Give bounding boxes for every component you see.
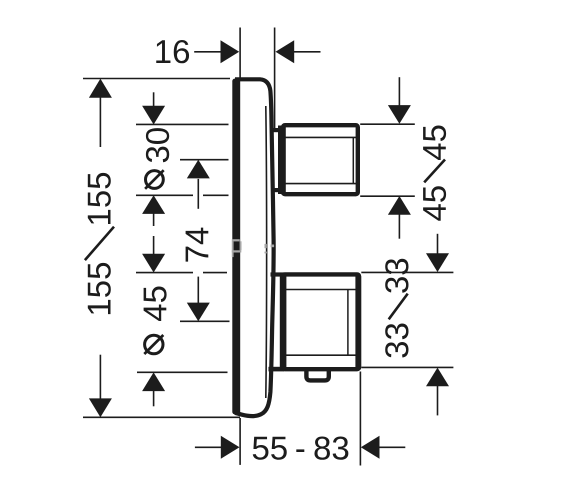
watermark fragments: [232, 239, 274, 257]
arrowhead O30 up: [142, 195, 165, 214]
handle lower inner top line: [285, 289, 357, 291]
wire 45/45 dim bottom tail: [398, 214, 400, 239]
wire 16 dim right tail: [294, 51, 321, 53]
arrowhead O45 up: [142, 372, 165, 391]
handle lower left edge thick band: [280, 276, 287, 368]
safety stop tab: [306, 369, 328, 380]
label 74: [186, 228, 209, 262]
handle upper inner right line: [352, 137, 354, 183]
wire 55-83 left extension: [239, 418, 241, 465]
label O 45: [144, 287, 167, 322]
arrowhead 45/45 down: [388, 105, 411, 124]
handle lower right edge thick band: [355, 275, 361, 369]
arrowhead 33/33 up: [426, 368, 449, 387]
wire 74 bottom extension: [180, 320, 230, 322]
arrowhead O45 down: [142, 254, 165, 273]
stem upper top: [271, 128, 284, 132]
label 155 / 155: [88, 173, 111, 224]
handle upper inner top line: [286, 136, 357, 138]
arrowhead 55-83 left: [361, 436, 380, 459]
arrowhead O30 down: [142, 106, 165, 125]
wire O45 top extension seg2: [203, 272, 227, 274]
wire 55-83 right extension: [359, 372, 361, 466]
handle lower inner bottom line: [285, 354, 357, 356]
slash of 155/155: [85, 227, 114, 260]
label O30: [146, 128, 169, 162]
handle lower body: [283, 274, 360, 369]
arrowhead 55-83 right: [221, 436, 240, 459]
plate wall section bar: [232, 79, 240, 415]
wire O30 bottom extension seg2: [203, 194, 229, 196]
wire 33/33 top extension: [361, 271, 453, 273]
wire 33/33 dim top tail: [437, 234, 439, 254]
wire O45 dim bottom tail: [153, 391, 155, 407]
wire O30 dim top tail: [153, 92, 155, 106]
wire 55-83 dim left tail: [195, 446, 221, 448]
plate front face inner contour: [265, 106, 268, 398]
wire O45 dim top tail: [153, 236, 155, 254]
wire top extension line 155: [83, 78, 230, 80]
wire 155 dim line lower tail: [99, 355, 101, 399]
arrowhead 45/45 up: [388, 196, 411, 215]
arrowhead 74 up: [187, 160, 210, 179]
stem upper bottom: [271, 188, 284, 192]
wire 155 dim line upper tail: [99, 97, 101, 147]
wire O30 bottom extension seg1: [136, 194, 193, 196]
handle upper left edge thick band: [278, 126, 286, 195]
wire O45 bottom extension: [137, 371, 228, 373]
label 16: [156, 40, 189, 63]
wire O30 dim bottom tail: [153, 213, 155, 226]
wire 74 dim bottom tail: [197, 277, 199, 304]
arrowhead 155 up: [89, 79, 112, 98]
handle lower (volume control): [269, 274, 360, 380]
wire 74 top extension: [180, 159, 229, 161]
handle lower inner right line: [347, 290, 349, 356]
wire 16 dim left tail: [194, 51, 221, 53]
handle upper body: [283, 125, 358, 194]
wire 55-83 dim right tail: [379, 446, 405, 448]
arrowhead 33/33 down: [426, 253, 449, 272]
plate outline: [235, 79, 274, 416]
arrowhead 16 right: [221, 40, 240, 63]
arrowhead 16 left: [276, 40, 295, 63]
label 33/33: [385, 259, 408, 293]
escutcheon plate side view: [232, 79, 273, 416]
arrowhead 74 down: [187, 303, 210, 322]
wire O45 top extension seg1: [136, 272, 193, 274]
wire 74 dim top tail: [197, 179, 199, 209]
slash of 33/33: [389, 294, 408, 320]
wire 16 left extension: [239, 28, 241, 78]
handle upper inner bottom line: [286, 183, 357, 185]
slash of 45/45: [424, 160, 445, 183]
wire 45/45 dim top tail: [398, 77, 400, 105]
wire 16 right extension: [274, 28, 276, 129]
handle upper (thermostat): [271, 125, 358, 194]
stem lower bottom: [269, 367, 285, 372]
wire 45/45 top extension: [360, 123, 415, 125]
wire 45/45 bottom extension: [360, 195, 415, 197]
wire O30 top extension: [136, 123, 229, 125]
label 45/45: [423, 126, 446, 161]
wire 33/33 dim bottom tail: [437, 386, 439, 416]
wire bottom extension line 155: [83, 416, 240, 418]
label 55 - 83: [253, 437, 287, 460]
wire 33/33 bottom extension: [361, 366, 453, 368]
arrowhead 155 down: [89, 398, 112, 417]
stem lower top: [271, 272, 285, 276]
